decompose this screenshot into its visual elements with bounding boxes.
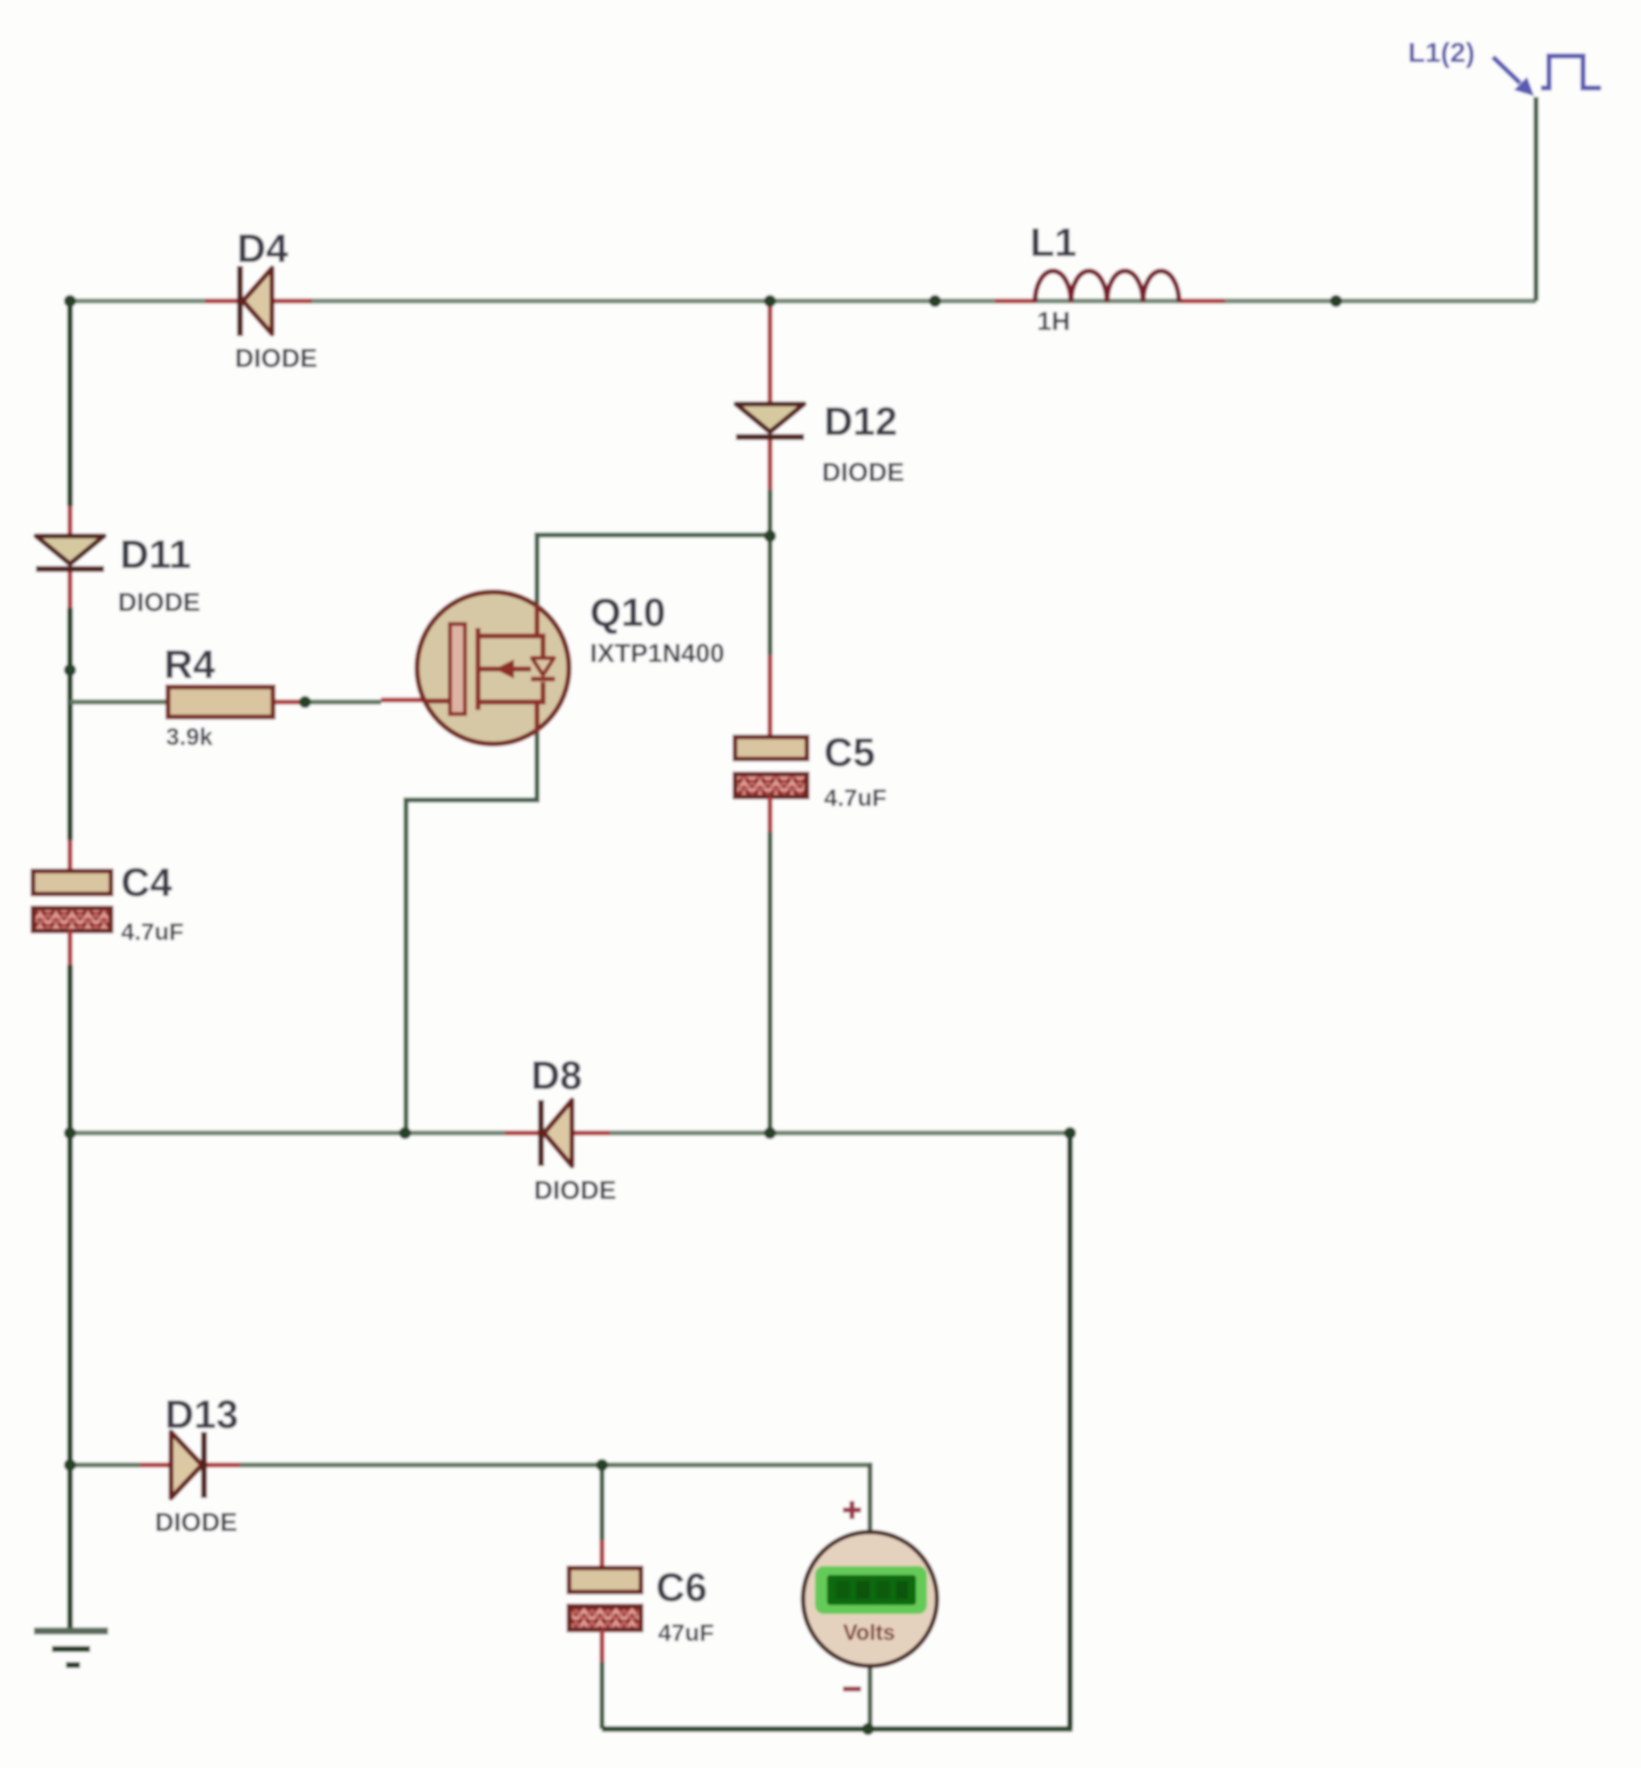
- capacitor C4: [33, 840, 111, 965]
- wire voltmeter plus lead: [868, 1463, 873, 1534]
- svg-text:3.9k: 3.9k: [166, 724, 213, 751]
- svg-text:DIODE: DIODE: [822, 457, 904, 487]
- label R4: [164, 643, 216, 751]
- wire D12 branch green: [768, 488, 773, 536]
- wire Q10 drain to D12 node: [535, 535, 771, 640]
- ground: [34, 1631, 108, 1665]
- node E (770,536): [764, 530, 776, 542]
- wire left rail x=70: [67, 301, 73, 1630]
- capacitor C6: [569, 1540, 641, 1662]
- svg-text:1H: 1H: [1037, 306, 1070, 336]
- voltmeter minus sign: [843, 1687, 861, 1692]
- svg-text:C5: C5: [824, 731, 875, 775]
- svg-text:D12: D12: [824, 400, 897, 444]
- svg-text:L1: L1: [1030, 221, 1077, 265]
- svg-text:D4: D4: [237, 227, 289, 271]
- label D12: [822, 400, 904, 487]
- wire bottom rail y=1729: [602, 1726, 1073, 1732]
- node I (405,1133): [399, 1127, 411, 1139]
- node H (70,1133): [64, 1127, 76, 1139]
- svg-text:DIODE: DIODE: [534, 1175, 616, 1205]
- wire C6 branch: [600, 1465, 605, 1729]
- voltmeter: [803, 1532, 937, 1666]
- wire Q10 source path: [406, 700, 540, 1133]
- diode D4: [205, 266, 312, 336]
- node J (770,1133): [764, 1127, 776, 1139]
- node G (305,702): [299, 696, 311, 708]
- svg-text:D13: D13: [165, 1393, 238, 1437]
- svg-text:DIODE: DIODE: [118, 587, 200, 617]
- resistor R4: [70, 687, 381, 717]
- voltmeter plus sign: [843, 1501, 861, 1519]
- label C6: [656, 1566, 714, 1647]
- label Q10: [590, 591, 724, 668]
- svg-text:DIODE: DIODE: [155, 1507, 237, 1537]
- node A (70,301): [64, 295, 76, 307]
- svg-text:Volts: Volts: [843, 1620, 895, 1645]
- wire D8 horizontal rail y=1133: [70, 1131, 1070, 1136]
- wire right rail x=1070: [1067, 1133, 1073, 1729]
- svg-text:R4: R4: [164, 643, 216, 687]
- label C4: [121, 861, 184, 946]
- diode D8: [505, 1100, 610, 1166]
- svg-text:4.7uF: 4.7uF: [824, 785, 887, 812]
- node M (602,1465): [596, 1459, 608, 1471]
- wire D13 horizontal y=1465: [70, 1463, 870, 1468]
- svg-text:IXTP1N400: IXTP1N400: [590, 638, 724, 668]
- diode D11: [36, 506, 104, 608]
- node L (70,1465): [64, 1459, 76, 1471]
- svg-text:L1(2): L1(2): [1408, 37, 1475, 68]
- node C (935,301): [929, 295, 941, 307]
- diode D12: [736, 301, 804, 490]
- label D8: [531, 1054, 616, 1205]
- wire C5 branch: [768, 536, 773, 1133]
- pulse generator L1(2): [1408, 37, 1601, 96]
- svg-text:D8: D8: [531, 1054, 582, 1098]
- node F (70,670): [64, 664, 76, 676]
- capacitor C5: [735, 655, 807, 832]
- label L1: [1030, 221, 1077, 336]
- diode D13: [140, 1432, 240, 1498]
- inductor L1: [995, 271, 1225, 302]
- svg-text:47uF: 47uF: [658, 1620, 714, 1647]
- label D13: [155, 1393, 238, 1537]
- svg-text:4.7uF: 4.7uF: [121, 919, 184, 946]
- svg-text:C4: C4: [121, 861, 173, 905]
- svg-text:C6: C6: [656, 1566, 707, 1610]
- svg-text:D11: D11: [120, 533, 191, 577]
- transistor Q10 (MOSFET): [381, 592, 569, 744]
- wire voltmeter minus lead: [868, 1666, 873, 1729]
- wire top rail y=301: [70, 299, 1536, 304]
- wire source drop (right vertical from pulse generator): [1534, 97, 1539, 301]
- svg-text:DIODE: DIODE: [235, 343, 317, 373]
- node K (1070,1133): [1064, 1127, 1076, 1139]
- label C5: [824, 731, 887, 812]
- node B (770,301): [764, 295, 776, 307]
- node D (1336,301): [1330, 295, 1342, 307]
- label D11: [118, 533, 200, 617]
- node N (868,1729): [862, 1723, 874, 1735]
- label D4: [235, 227, 317, 373]
- svg-text:Q10: Q10: [590, 591, 666, 635]
